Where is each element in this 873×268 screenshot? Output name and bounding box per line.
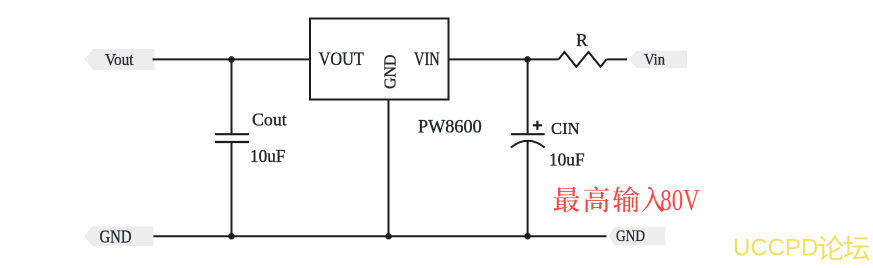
node junction VIN/CIN [524,56,531,63]
node junction U1-GND/GND [385,233,392,240]
annotation char 输 [613,186,640,212]
capacitor C2 CIN bottom lead [527,142,529,237]
svg-text:UCCPD: UCCPD [733,235,818,262]
svg-text:GND: GND [100,226,132,246]
watermark char 坛 [844,236,870,261]
wire U1 VIN to node [448,58,559,60]
svg-text:GND: GND [616,228,645,245]
capacitor C2 CIN curved plate [511,141,545,148]
wire U1 GND pin down [388,100,390,237]
svg-text:CIN: CIN [551,119,580,138]
capacitor C1 Cout bottom lead [231,142,233,236]
capacitor C2 CIN top plate [511,133,545,135]
svg-text:PW8600: PW8600 [418,117,482,137]
svg-text:VOUT: VOUT [319,49,365,70]
svg-text:GND: GND [380,54,399,89]
svg-text:Cout: Cout [252,110,287,130]
svg-text:10uF: 10uF [250,146,285,166]
bottom ground wire [153,235,607,237]
capacitor C1 Cout plates [215,133,249,135]
annotation char 高 [584,186,609,212]
resistor R1 zigzag [559,52,607,67]
polarity plus sign CIN [533,124,542,126]
annotation char 最 [553,187,579,213]
svg-text:Vin: Vin [644,51,665,68]
watermark char 论 [818,235,844,260]
capacitor C2 CIN top lead [527,59,529,134]
net tag Vout [85,49,155,70]
node junction Vout/Cout [228,56,235,63]
IC U1 PW8600 body [310,19,449,100]
svg-text:10uF: 10uF [549,150,585,170]
node junction CIN/GND [524,233,531,240]
svg-text:Vout: Vout [105,50,134,69]
net tag Vin [628,51,687,69]
node junction Cout/GND [228,233,235,240]
net tag GND left [84,226,153,246]
wire resistor to Vin tag [607,58,628,60]
capacitor C1 Cout top lead [231,59,233,134]
svg-text:VIN: VIN [414,49,440,70]
svg-text:80V: 80V [660,182,700,217]
svg-text:R: R [576,30,588,50]
net tag GND right [608,227,665,246]
annotation char 入 [641,186,664,212]
wire Vout to U1 [153,58,312,60]
